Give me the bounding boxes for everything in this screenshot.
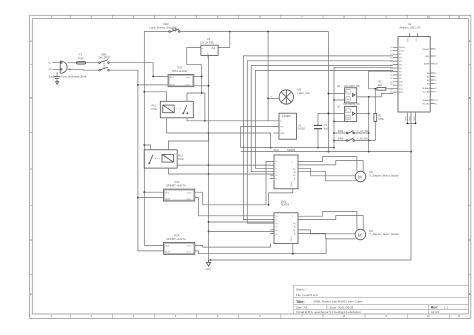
svg-text:A-: A-	[294, 171, 296, 174]
svg-text:4u5: 4u5	[324, 127, 329, 131]
svg-text:PS4: PS4	[175, 233, 180, 237]
psu PS2 TDK-Lambda	[165, 66, 208, 87]
svg-text:D1/Tx: D1/Tx	[399, 51, 406, 53]
junction	[374, 88, 376, 90]
junction	[152, 76, 154, 78]
frame grid numbers top	[50, 15, 460, 19]
switch SW4 X_HI_NO	[334, 137, 369, 142]
junction	[208, 221, 210, 223]
svg-text:PS2: PS2	[178, 66, 183, 70]
svg-text:-Vout: -Vout	[186, 197, 191, 200]
svg-text:GND: GND	[291, 236, 293, 241]
svg-text:12V 3A PSU: 12V 3A PSU	[200, 41, 215, 45]
svg-text:C: C	[30, 167, 32, 171]
junction	[368, 132, 370, 134]
wire SM1 motor wires	[298, 157, 363, 181]
IC A1 Arduino_UNO_R3	[398, 22, 430, 112]
svg-text:Date: 2021-06-03: Date: 2021-06-03	[330, 306, 354, 310]
frame grid numbers bottom	[50, 314, 460, 318]
fuse F1	[77, 53, 86, 65]
junction	[208, 132, 210, 134]
svg-text:FINx: FINx	[178, 157, 184, 161]
svg-text:SDR04: SDR04	[287, 148, 296, 152]
ground symbol GND	[206, 259, 212, 271]
svg-text:Conn_Bulkhead_Earth: Conn_Bulkhead_Earth	[61, 75, 88, 79]
frame grid tick marks top	[70, 15, 449, 18]
svg-text:X_HI_NO: X_HI_NO	[357, 137, 368, 141]
svg-text:SM2: SM2	[281, 199, 287, 203]
svg-text:-Vout: -Vout	[185, 84, 190, 87]
svg-text:M2: M2	[369, 229, 373, 233]
junction	[368, 140, 370, 142]
wire laser T+ line	[187, 120, 279, 122]
capacitor C1	[314, 113, 328, 147]
junction	[333, 140, 335, 142]
wire TTL line	[241, 126, 279, 147]
wire SW1-N down rail	[109, 70, 163, 251]
junction	[410, 151, 412, 153]
opto U2a	[328, 84, 360, 103]
stepper driver SM1 SDR04	[269, 148, 299, 205]
junction	[267, 98, 269, 100]
junction	[328, 151, 330, 153]
svg-text:GND: GND	[280, 133, 285, 135]
svg-text:Sheet: /: Sheet: /	[296, 288, 307, 292]
wire RL1 gnd line to switches	[167, 133, 271, 148]
wire gnd loop bottom	[211, 152, 411, 260]
svg-text:GND: GND	[291, 181, 293, 186]
svg-text:Y_Stepper_Motor_bipolar: Y_Stepper_Motor_bipolar	[369, 232, 399, 236]
junction emerg line fan tap	[267, 31, 269, 33]
svg-text:GND: GND	[425, 56, 430, 58]
svg-text:U2: U2	[337, 104, 341, 108]
svg-text:LID-OPN_NO: LID-OPN_NO	[344, 84, 360, 88]
earth ground symbol	[54, 76, 60, 85]
svg-text:X_LO_NC: X_LO_NC	[357, 129, 369, 133]
wire branch at 64.7 to PS2 +V	[187, 64, 202, 66]
wire SW1-L to PS2 AC/L	[109, 63, 165, 77]
wire gnd mid rail	[241, 148, 411, 152]
psu PS4 SPS48T +24V7A	[164, 233, 203, 254]
Arduino left pin stubs	[390, 47, 405, 94]
opto U2b	[328, 102, 361, 122]
wire U3 input from 12V node	[187, 48, 205, 121]
relay RL1	[144, 92, 193, 133]
svg-text:SPS48T-+24V7A: SPS48T-+24V7A	[166, 184, 186, 188]
junction	[143, 191, 145, 193]
junction	[201, 92, 203, 94]
junction	[137, 84, 139, 86]
wire R2 to pin	[386, 88, 393, 90]
svg-text:Size: A4: Size: A4	[296, 306, 307, 310]
svg-text:E-: E-	[276, 233, 278, 235]
regulator U3 12V 3A PSU	[200, 37, 218, 58]
junction T+ node	[204, 120, 206, 122]
frame grid tick marks left	[30, 64, 33, 274]
svg-text:GND: GND	[414, 116, 416, 121]
wire N to SW1	[68, 68, 99, 71]
laser module U1 M130	[274, 113, 306, 139]
resistor R2 1k0	[377, 80, 386, 91]
psu PS3 SPS48T +24V7A	[164, 180, 203, 201]
svg-text:SW4: SW4	[338, 137, 344, 141]
svg-text:E: E	[469, 292, 471, 296]
svg-text:RESET: RESET	[423, 49, 431, 51]
connector J1 Conn_Bulkhead_Earth	[48, 61, 88, 79]
svg-text:M3: M3	[298, 88, 302, 92]
svg-text:SW_DPST: SW_DPST	[98, 55, 111, 59]
svg-text:X_Stepper_Motor_bipolar: X_Stepper_Motor_bipolar	[369, 173, 399, 177]
junction	[270, 147, 272, 149]
junction	[201, 76, 203, 78]
frame grid tick marks right	[468, 64, 470, 274]
svg-text:C1: C1	[324, 123, 328, 127]
svg-text:P-: P-	[276, 220, 278, 222]
wire 12V drop to fan and laser	[267, 32, 269, 121]
junction	[317, 147, 319, 149]
junction	[292, 253, 294, 255]
svg-text:SM1: SM1	[274, 148, 280, 152]
wire signal bus D5	[255, 70, 393, 168]
svg-text:SW2: SW2	[163, 22, 169, 26]
svg-text:AREF: AREF	[424, 63, 430, 66]
svg-text:M: M	[358, 232, 362, 237]
motor M1 X_Stepper_Motor_bipolar	[355, 170, 399, 182]
svg-text:SDA/A4: SDA/A4	[422, 99, 430, 102]
wire D6 feeder down to switches	[334, 68, 393, 148]
svg-text:A1: A1	[408, 22, 412, 26]
svg-text:1.2: 1.2	[444, 306, 449, 310]
svg-text:D: D	[30, 238, 32, 242]
frame grid letters right	[469, 39, 471, 296]
svg-text:Id: 1/1: Id: 1/1	[431, 310, 440, 314]
fan M3 Laser_Fan	[271, 88, 311, 105]
wire R1 bottom to switch row	[369, 122, 376, 141]
svg-text:Out: Out	[211, 46, 215, 50]
frame grid letters left	[30, 39, 32, 296]
svg-text:LASER: LASER	[282, 114, 291, 118]
wire signal bus D4	[251, 66, 393, 172]
wire U2b right	[357, 113, 369, 115]
svg-text:A-: A-	[294, 226, 296, 229]
svg-text:D0/Rx: D0/Rx	[399, 47, 406, 49]
svg-text:Rev:: Rev:	[431, 306, 438, 310]
svg-text:U1: U1	[298, 123, 302, 127]
junction	[333, 147, 335, 149]
svg-text:FINx: FINx	[152, 107, 158, 111]
relay RL2	[144, 133, 274, 174]
switch SW3 X_LO_NC	[334, 129, 369, 134]
ground rail vertical from U3/PS2	[208, 55, 210, 260]
junction	[208, 173, 210, 175]
svg-text:Arduino_UNO_R3: Arduino_UNO_R3	[400, 25, 421, 29]
svg-text:GND: GND	[406, 116, 408, 121]
svg-text:KiCad E.D.A. eeschema 5.1.9+d: KiCad E.D.A. eeschema 5.1.9+dfsg1-1+deb1…	[296, 310, 361, 314]
stepper driver SM2 SDR04	[270, 199, 298, 253]
wire emerg stop drop right	[327, 32, 329, 152]
junction	[368, 113, 370, 115]
svg-text:+Vout: +Vout	[186, 191, 192, 194]
svg-text:SCL/A5: SCL/A5	[422, 102, 430, 105]
svg-text:B-: B-	[294, 233, 296, 235]
svg-text:D-: D-	[276, 172, 279, 174]
svg-text:M1: M1	[369, 170, 373, 174]
wire SM2 motor wires	[298, 212, 363, 239]
svg-text:1k0: 1k0	[378, 83, 383, 87]
svg-text:SPS48T-+24V7A: SPS48T-+24V7A	[166, 237, 186, 241]
junction	[208, 85, 210, 87]
svg-text:C: C	[469, 167, 471, 171]
switch SW1 SW_DPST	[98, 52, 111, 71]
wire N branch to PS2 AC/N	[138, 84, 165, 86]
svg-text:PS3: PS3	[175, 180, 180, 184]
svg-text:SDA/A4: SDA/A4	[422, 87, 430, 90]
svg-text:C3C-NPN_NO: C3C-NPN_NO	[343, 102, 360, 106]
wire 12V to C1	[318, 112, 328, 114]
wire R2 node down to R1	[374, 89, 376, 114]
wire PS4 -V rail	[199, 238, 327, 254]
junction	[268, 204, 270, 206]
svg-text:+5V: +5V	[416, 38, 418, 42]
svg-text:AC/N: AC/N	[165, 197, 170, 200]
junction	[333, 132, 335, 134]
svg-text:+Vout: +Vout	[185, 76, 191, 79]
wire signal bus D2	[243, 56, 393, 220]
junction	[368, 151, 370, 153]
wire N branch to PS3 AC/N	[138, 197, 164, 199]
svg-text:B-: B-	[294, 179, 296, 181]
wire PS3 -V rail	[199, 198, 275, 216]
resistor R1 100k	[374, 113, 385, 121]
svg-text:+Vout: +Vout	[186, 245, 192, 248]
svg-text:GND: GND	[409, 116, 411, 121]
svg-text:E: E	[30, 292, 32, 296]
svg-text:B: B	[469, 96, 471, 100]
wire Arduino GND down	[410, 123, 412, 151]
junction	[137, 197, 139, 199]
svg-text:GRBL Router with M300 Laser Cu: GRBL Router with M300 Laser Cutter	[313, 300, 363, 304]
wire U2a right to Arduino D13	[357, 93, 393, 97]
svg-text:M130: M130	[298, 127, 305, 131]
svg-text:File: router5.sch: File: router5.sch	[296, 293, 318, 297]
wire gnd rail to SM2	[209, 222, 275, 231]
wire fuse to SW1	[86, 62, 99, 64]
svg-text:Laser_Fan: Laser_Fan	[298, 91, 311, 95]
wire PS3 +V to SM1 P+	[203, 161, 274, 204]
svg-text:P-: P-	[276, 165, 278, 167]
svg-text:SW3: SW3	[338, 129, 344, 133]
junction	[328, 113, 330, 115]
svg-text:B: B	[30, 96, 32, 100]
svg-text:GND: GND	[206, 268, 212, 271]
junction	[143, 91, 145, 93]
wire signal bus D3	[247, 61, 393, 223]
svg-text:SCL/A5: SCL/A5	[422, 91, 430, 94]
svg-text:A: A	[469, 39, 471, 43]
junction	[143, 144, 145, 146]
frame grid tick marks bottom	[70, 314, 449, 318]
svg-text:TDK-Lambda: TDK-Lambda	[172, 69, 188, 73]
wire PS4 +V rail	[203, 244, 271, 248]
wire U3 out up to emerg line	[218, 32, 230, 48]
wire D7 to R2 node	[369, 71, 393, 89]
svg-text:-Vout: -Vout	[186, 251, 191, 254]
svg-text:Latch_Emerg_Stop_NC: Latch_Emerg_Stop_NC	[150, 26, 178, 30]
svg-text:~N: ~N	[48, 67, 52, 71]
title block	[294, 285, 469, 314]
svg-text:Title:: Title:	[296, 300, 305, 304]
svg-text:A: A	[30, 39, 32, 43]
svg-text:U2: U2	[337, 84, 341, 88]
svg-text:100k: 100k	[378, 117, 384, 121]
junction	[208, 231, 210, 233]
Arduino bottom GND pins	[406, 112, 417, 124]
svg-text:M: M	[358, 174, 362, 179]
wire fan feed	[268, 97, 279, 99]
wire L to fuse	[68, 62, 77, 64]
motor M2 Y_Stepper_Motor_bipolar	[355, 229, 399, 240]
svg-text:SDR04: SDR04	[281, 203, 290, 207]
wire switch return vertical	[368, 97, 370, 152]
junction	[208, 164, 210, 166]
junction emerg line to U3	[229, 31, 231, 33]
junction	[368, 96, 370, 98]
svg-text:E-: E-	[276, 179, 278, 181]
svg-text:Fuse: Fuse	[78, 56, 84, 60]
svg-text:AC/N: AC/N	[170, 84, 175, 87]
wire emerg stop line	[144, 32, 328, 193]
wire AC/L to PS4	[144, 192, 163, 245]
svg-text:D: D	[469, 238, 471, 242]
switch SW2 Latch_Emerg_Stop_NC	[150, 22, 181, 32]
svg-text:D-: D-	[276, 227, 279, 229]
Arduino right pin stubs	[422, 49, 438, 106]
svg-text:AC/N: AC/N	[165, 251, 170, 254]
